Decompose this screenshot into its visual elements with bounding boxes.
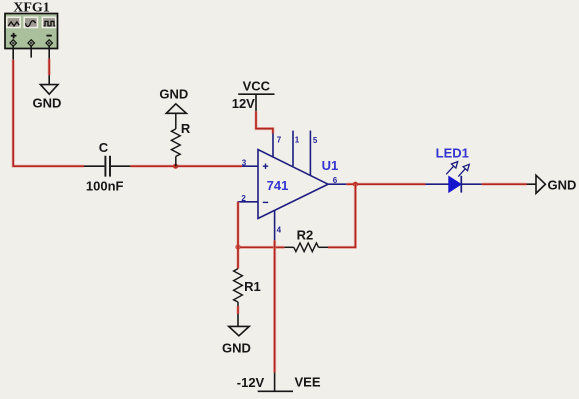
VCC pin stub (black) — [255, 94, 257, 111]
LED1 emission arrow 2 — [458, 164, 469, 176]
XFG1 terminal common — [28, 40, 35, 47]
XFG1 terminal + — [10, 40, 17, 47]
VEE pin stub (black) — [274, 373, 276, 392]
node junction inverting input — [235, 244, 240, 249]
ground pin stub below XFG1 (black) — [48, 75, 50, 84]
svg-text:GND: GND — [33, 95, 62, 110]
svg-text:4: 4 — [277, 225, 282, 234]
node junction at R bottom — [173, 164, 178, 169]
svg-text:1: 1 — [295, 136, 300, 145]
ground pin stub below R1 (black) — [237, 314, 239, 326]
capacitor C right lead — [111, 165, 130, 167]
svg-text:LED1: LED1 — [436, 145, 469, 160]
op-amp U1 pin 7 — [272, 134, 274, 158]
svg-text:2: 2 — [241, 194, 246, 203]
wire R2 to junction (red) — [238, 246, 284, 249]
wire pin2 down to junction (red) — [236, 202, 239, 247]
wire XFG1 - pin stub (black) — [48, 46, 50, 59]
XFG1 plus mark — [11, 33, 17, 39]
resistor R2 zigzag — [294, 243, 319, 252]
wire output to R2 right (red, feedback) — [328, 184, 355, 247]
op-amp pin 3 stub — [242, 165, 258, 167]
ground symbol above R (flipped) — [166, 104, 186, 114]
op-amp pin 2 stub — [238, 201, 258, 203]
op-amp plus input mark — [263, 164, 268, 169]
svg-text:U1: U1 — [322, 158, 339, 173]
resistor R zigzag — [171, 129, 180, 157]
svg-text:GND: GND — [222, 340, 251, 355]
svg-text:R: R — [181, 121, 191, 136]
svg-text:6: 6 — [333, 176, 338, 185]
svg-text:GND: GND — [548, 178, 577, 193]
wire R1 to ground (red segment) — [236, 306, 239, 314]
svg-text:-12V: -12V — [237, 375, 265, 390]
svg-text:R2: R2 — [297, 228, 314, 243]
LED1 anode lead — [426, 183, 449, 185]
resistor R1 zigzag — [234, 269, 243, 302]
op-amp pin 4 stub — [274, 210, 276, 240]
wire LED to GND connector (red) — [482, 183, 527, 186]
resistor R bottom lead — [175, 156, 177, 166]
XFG1 button triangle-wave — [7, 17, 20, 27]
wire XFG1 - to ground (red) — [48, 59, 51, 76]
svg-text:VEE: VEE — [294, 375, 320, 390]
ground symbol below R1 — [229, 326, 250, 335]
op-amp U1 triangle — [258, 150, 328, 219]
GND off-page connector triangle — [536, 175, 545, 193]
XFG1 button sine-wave — [24, 17, 37, 27]
svg-text:C: C — [99, 140, 109, 155]
wire XFG1 common stub (black) — [30, 46, 32, 58]
wire VCC to op-amp pin 7 (red) — [256, 111, 273, 133]
svg-text:3: 3 — [242, 158, 247, 167]
op-amp minus input mark — [263, 201, 268, 203]
LED1 cathode bar — [460, 176, 462, 193]
wire junction to R1 (red) — [236, 247, 239, 269]
svg-text:GND: GND — [159, 86, 188, 101]
svg-text:VCC: VCC — [243, 79, 271, 94]
VEE rail — [258, 390, 293, 392]
wire capacitor to op-amp input (red) — [130, 165, 242, 168]
LED1 emission arrow 1 — [446, 162, 458, 175]
wire XFG1 + pin stub (black) — [12, 46, 14, 60]
LED1 cathode lead — [461, 183, 482, 185]
wire pin4 down to VEE (red) — [273, 240, 276, 372]
wire XFG1 + down left side and to capacitor (red) — [13, 60, 84, 167]
svg-text:741: 741 — [267, 178, 289, 193]
wire pin6 to LED (red) — [346, 183, 425, 186]
capacitor C plates — [105, 156, 110, 177]
node junction at output — [353, 182, 358, 187]
resistor R1 bottom lead (black) — [237, 302, 239, 306]
VCC rail — [238, 93, 274, 95]
op-amp pin 6 output stub — [328, 183, 346, 185]
XFG1 terminal - — [46, 40, 53, 47]
capacitor C left lead — [84, 165, 104, 167]
resistor R2 right lead — [319, 246, 329, 248]
wire ground to resistor R (black) — [175, 113, 177, 129]
svg-text:100nF: 100nF — [86, 178, 124, 193]
LED1 triangle — [449, 176, 461, 192]
svg-text:5: 5 — [313, 136, 318, 145]
resistor R2 left lead — [284, 246, 294, 248]
op-amp U1 pin 1 — [292, 131, 294, 166]
svg-text:12V: 12V — [232, 96, 255, 111]
function generator XFG1 body — [5, 14, 58, 49]
XFG1 button square-wave — [42, 17, 55, 27]
XFG1 minus mark — [46, 35, 51, 37]
op-amp U1 pin 5 — [309, 131, 311, 176]
svg-text:R1: R1 — [244, 279, 261, 294]
svg-text:7: 7 — [277, 136, 282, 145]
ground symbol below XFG1 — [40, 85, 58, 95]
GND connector lead (black) — [527, 183, 536, 185]
